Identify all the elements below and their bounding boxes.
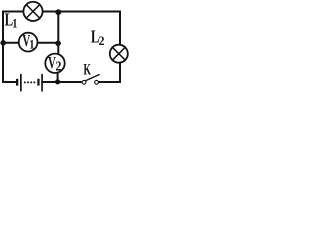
wire bottom left to battery: [2, 81, 17, 83]
switch K: [82, 74, 100, 84]
wire V2 bottom stub: [57, 72, 59, 82]
wire right side vertical: [119, 12, 121, 83]
node A junction dot on top wire: [55, 9, 61, 15]
wire battery to switch: [43, 81, 83, 83]
wire middle vertical from node A to V2: [57, 12, 59, 55]
svg-text:1: 1: [29, 38, 34, 52]
lamp L2: [110, 45, 128, 63]
battery B (two cells with dots): [16, 74, 43, 92]
voltmeter V1: [19, 33, 38, 52]
node C junction dot on bottom wire: [55, 79, 60, 84]
wire voltmeter V1 horizontal branch: [3, 42, 58, 44]
svg-text:2: 2: [99, 33, 105, 47]
svg-text:2: 2: [56, 59, 62, 74]
voltmeter V2: [45, 54, 64, 74]
wire top from left corner to right corner: [3, 11, 121, 13]
wire left side vertical: [2, 11, 4, 84]
lamp L1: [23, 2, 42, 21]
node D junction dot on left wire: [0, 40, 6, 46]
wire switch to bottom right corner: [98, 81, 121, 83]
label L2: [91, 28, 105, 48]
node B junction dot V1/V2 branch: [55, 41, 61, 47]
svg-text:1: 1: [12, 16, 17, 30]
svg-text:K: K: [84, 60, 92, 78]
label L1: [5, 10, 18, 30]
